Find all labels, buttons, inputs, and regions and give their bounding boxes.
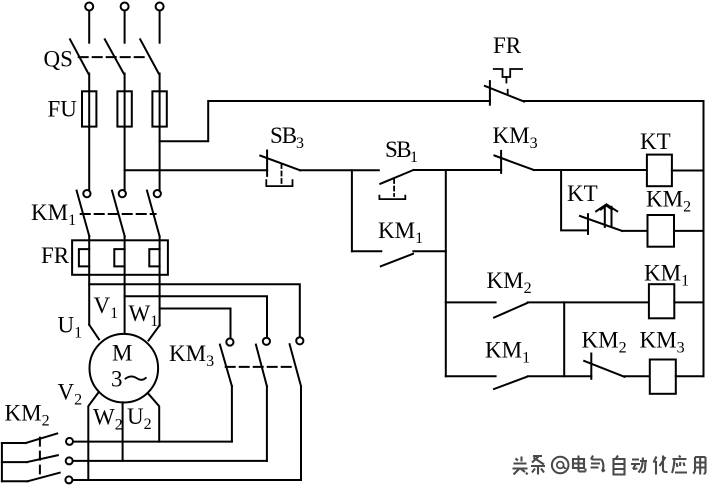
coil KT bbox=[647, 155, 672, 187]
contactor KM1 main pole 1 blade bbox=[77, 191, 90, 237]
coil KM2 bbox=[648, 215, 675, 247]
wire phase2 KM1 to motor bbox=[124, 236, 126, 334]
KM2 star pole 3 blade bbox=[28, 473, 60, 482]
wire KM3 pole1 down to row1 bbox=[231, 386, 233, 441]
FR NC contact terminal bar bbox=[489, 81, 491, 105]
KT delay symbol chevron inner bbox=[601, 206, 612, 210]
fuse FU3 bbox=[152, 91, 166, 126]
wire SB1 to KM3 contact bbox=[413, 169, 501, 171]
FR heater element 1 bbox=[79, 249, 89, 266]
wire KM3 coil to rail bbox=[676, 375, 704, 377]
tilde of 3~ bbox=[126, 376, 146, 379]
wire KM3 pole2 down to row2 bbox=[266, 386, 268, 461]
contactor KM1 main pole 2 terminal bbox=[119, 190, 126, 197]
wire phase3 through fuse to KM1 bbox=[159, 74, 161, 191]
wire phase1 through fuse to KM1 bbox=[88, 74, 90, 191]
switch QS pole 1 blade bbox=[70, 39, 88, 73]
wire row2 bbox=[73, 460, 267, 462]
svg-text:FU: FU bbox=[48, 97, 78, 122]
wire phase2 through fuse to KM1 bbox=[124, 74, 126, 191]
contactor KM1 main pole 1 terminal bbox=[83, 190, 90, 197]
wire KT coil to rail bbox=[672, 170, 704, 172]
KM2 NC contact terminal bar bbox=[590, 354, 592, 379]
KT NC contact terminal bar bbox=[587, 214, 589, 234]
KM2 NO contact blade bbox=[494, 303, 527, 318]
wire U1 branch to KM3 right bbox=[89, 284, 300, 337]
contactor KM1 main pole 2 blade bbox=[112, 191, 125, 237]
wire KM3 contact to KT coil bbox=[534, 169, 647, 171]
KM2 star pole 2 blade bbox=[27, 455, 58, 462]
coil KM1 bbox=[649, 284, 674, 318]
svg-text:KT: KT bbox=[640, 129, 671, 154]
fuse line through FU1 bbox=[88, 91, 90, 126]
KM2 star stub 1 bbox=[2, 442, 26, 444]
FR heater element 3 bbox=[149, 249, 159, 266]
switch QS pole 3 blade bbox=[140, 39, 159, 73]
KM2 star point bus bbox=[1, 443, 3, 481]
wire KM2 coil to rail bbox=[674, 230, 704, 232]
contactor KM2 star pole 1 terminal bbox=[66, 438, 73, 445]
pushbutton SB1 button cap bbox=[379, 196, 405, 200]
KM2 NC contact blade bbox=[584, 361, 624, 377]
watermark 头条@电气自动化应用 bbox=[513, 456, 707, 477]
contactor KM3 linkage dashed bbox=[226, 366, 292, 368]
FR NC release stem bbox=[505, 77, 507, 83]
contactor KM1 linkage dashed bbox=[81, 213, 156, 215]
wire row1 bbox=[73, 441, 232, 443]
svg-text:KT: KT bbox=[567, 181, 598, 206]
svg-text:FR: FR bbox=[41, 243, 70, 268]
pushbutton SB1 actuator stem dashed bbox=[393, 179, 395, 196]
supply terminal L3 bbox=[156, 3, 164, 11]
pushbutton SB3 terminal bar bbox=[266, 151, 268, 176]
wire KM2 contact to KM1 coil bbox=[528, 301, 649, 303]
contactor KM3 pole 3 terminal bbox=[296, 337, 303, 344]
supply terminal L2 bbox=[121, 3, 129, 11]
wire W1 branch to KM3 left bbox=[160, 309, 231, 339]
FR heater element 2 bbox=[114, 249, 124, 266]
KM2 NO contact left wire bbox=[446, 301, 496, 303]
branch vertical main bbox=[445, 170, 447, 376]
fuse line through FU3 bbox=[159, 91, 161, 126]
contactor KM1 main pole 3 blade bbox=[147, 191, 160, 237]
wire L3 drop bbox=[159, 11, 161, 43]
KM2 star stub 3 bbox=[2, 480, 28, 482]
wire KM1 contact to KM2 NC bbox=[528, 375, 591, 377]
wire U2 from motor to row1 bbox=[148, 394, 159, 442]
fuse FU2 bbox=[117, 91, 131, 126]
KM3 NO contact blade bbox=[494, 156, 533, 171]
svg-text:3: 3 bbox=[111, 367, 123, 392]
KM2 star stub 2 bbox=[2, 461, 27, 463]
contactor KM3 pole 2 blade bbox=[256, 345, 267, 387]
contactor KM3 pole 1 blade bbox=[220, 345, 232, 387]
wire branch L3 to FR contact bbox=[160, 101, 490, 141]
contactor KM3 pole 2 terminal bbox=[263, 338, 270, 345]
wire V2 from motor to row3 bbox=[88, 392, 98, 480]
KT NC delayed contact blade bbox=[580, 216, 622, 231]
wire FR contact to right rail bbox=[524, 100, 703, 102]
wire L2 drop bbox=[124, 11, 126, 43]
wire U1 slant into motor bbox=[89, 325, 99, 340]
contactor KM3 pole 1 terminal bbox=[226, 338, 233, 345]
thermal relay FR box bbox=[72, 240, 168, 274]
contactor KM3 pole 3 blade bbox=[290, 344, 301, 386]
wire W1 slant into motor bbox=[149, 325, 160, 340]
wire row3 bbox=[72, 479, 301, 481]
KT delay symbol leg 1 bbox=[604, 207, 606, 227]
coil KM3 bbox=[650, 360, 676, 394]
wire KM2 NC to KM3 coil bbox=[625, 375, 650, 377]
wire L1 drop bbox=[88, 11, 90, 43]
FR NC release stem lower bbox=[507, 90, 509, 94]
KM1 NO contact blade bbox=[494, 377, 527, 389]
wire KT contact to KM2 coil bbox=[622, 230, 647, 232]
KT delay symbol chevron outer bbox=[596, 204, 617, 211]
right rail bbox=[703, 101, 705, 376]
KM3 NO contact terminal bar bbox=[500, 151, 502, 173]
switch QS linkage dashed bbox=[79, 56, 145, 58]
pushbutton SB1 blade bbox=[380, 170, 413, 184]
wire W2 from motor to row2 bbox=[122, 402, 124, 461]
motor M circle bbox=[90, 334, 159, 403]
wire phase3 KM1 to motor bbox=[159, 236, 161, 325]
pushbutton SB3 actuator stem dashed bbox=[281, 164, 283, 184]
FR NC release symbol bbox=[494, 69, 522, 77]
FR NC contact blade bbox=[485, 86, 524, 102]
KM1 latch branch left vertical bbox=[351, 170, 353, 251]
pushbutton SB3 blade bbox=[260, 156, 300, 171]
wire KM3 pole3 down to row3 bbox=[300, 386, 302, 480]
switch QS pole 2 blade bbox=[105, 39, 124, 73]
contactor KM2 star pole 3 terminal bbox=[65, 476, 72, 483]
wire V1 branch to KM3 middle bbox=[125, 296, 267, 338]
wire KM1 coil to rail bbox=[674, 301, 703, 303]
svg-text:QS: QS bbox=[44, 47, 73, 72]
KM2 star pole 1 blade bbox=[26, 434, 57, 444]
KT delay symbol leg 2 bbox=[611, 207, 613, 226]
KM1 latch NO blade bbox=[381, 254, 413, 266]
branch vertical mid bbox=[563, 302, 565, 376]
contactor KM2 star pole 2 terminal bbox=[66, 457, 73, 464]
KM1 NO contact left wire bbox=[446, 375, 496, 377]
KM1 latch right wire bbox=[413, 250, 445, 252]
pushbutton SB3 button cap bbox=[266, 180, 292, 186]
wire branch L2 to SB3 bbox=[125, 169, 268, 171]
wire SB3 to SB1 bbox=[300, 169, 379, 171]
wire phase1 KM1 to motor bbox=[88, 236, 90, 324]
KT branch vertical bbox=[561, 170, 588, 230]
KM2 star linkage dashed bbox=[39, 438, 41, 474]
KM1 latch left wire bbox=[352, 250, 381, 252]
contactor KM1 main pole 3 terminal bbox=[154, 190, 161, 197]
svg-text:M: M bbox=[112, 341, 132, 366]
fuse line through FU2 bbox=[124, 91, 126, 126]
fuse FU1 bbox=[82, 91, 96, 126]
svg-text:FR: FR bbox=[493, 33, 522, 58]
supply terminal L1 bbox=[85, 3, 93, 11]
